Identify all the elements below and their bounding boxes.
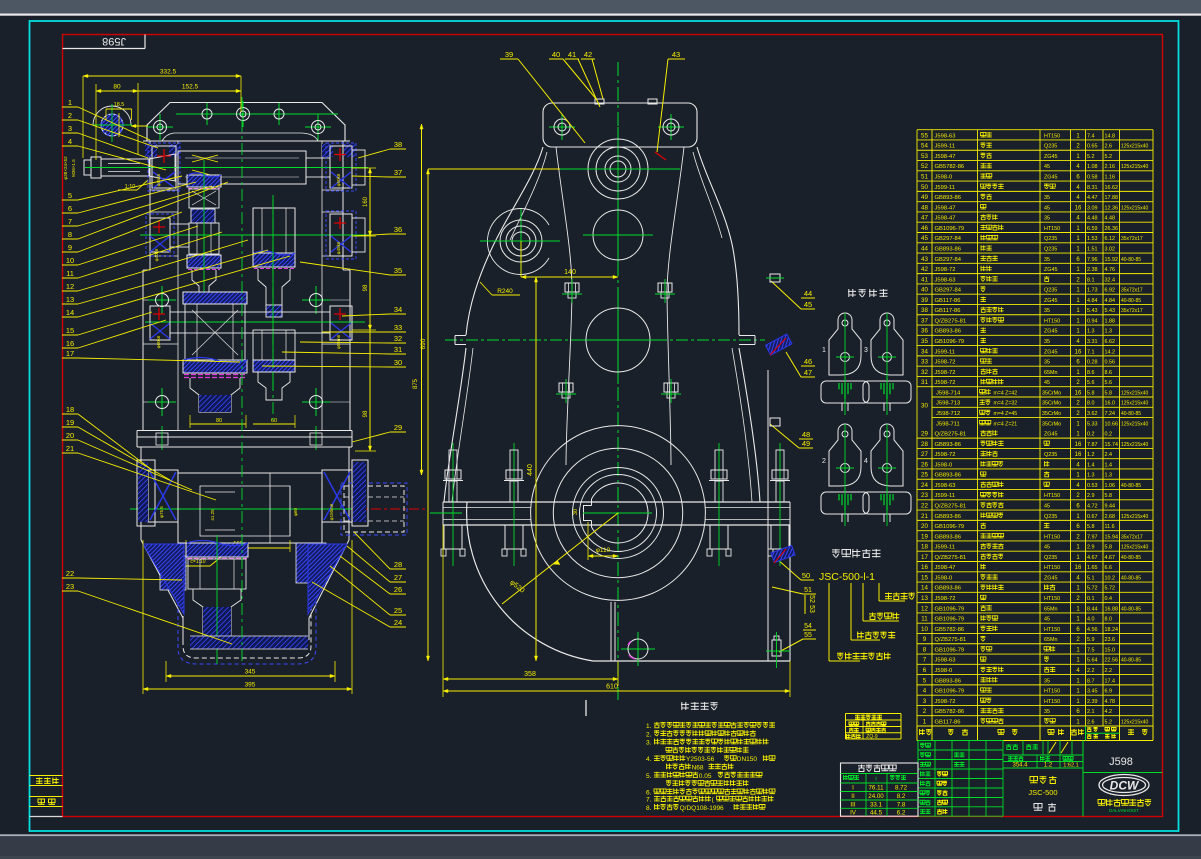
- svg-text:47: 47: [921, 215, 928, 222]
- svg-text:14.2: 14.2: [1105, 349, 1116, 355]
- svg-text:HT150: HT150: [1044, 596, 1060, 602]
- svg-text:J598-0: J598-0: [935, 462, 953, 468]
- svg-text:DN150: DN150: [737, 756, 758, 763]
- svg-text:φ50k6: φ50k6: [336, 173, 341, 186]
- svg-text:HT150: HT150: [1044, 627, 1060, 633]
- svg-text:15.74: 15.74: [1105, 442, 1119, 448]
- svg-text:16: 16: [1075, 349, 1082, 355]
- svg-text:ZG45: ZG45: [1044, 298, 1057, 304]
- svg-text:GB1096-79: GB1096-79: [935, 617, 965, 623]
- svg-text:J599-11: J599-11: [935, 349, 956, 355]
- svg-text:5.2: 5.2: [1087, 154, 1095, 160]
- svg-text:125x215x40: 125x215x40: [1121, 514, 1148, 520]
- svg-text:IV: IV: [850, 810, 857, 817]
- svg-text:25: 25: [394, 606, 402, 615]
- svg-text:J598-63: J598-63: [935, 277, 956, 283]
- svg-text:395: 395: [245, 682, 256, 689]
- svg-text:35x72x17: 35x72x17: [1121, 308, 1143, 314]
- svg-text:m=4 Z=32: m=4 Z=32: [994, 401, 1018, 407]
- svg-text:7.1: 7.1: [1087, 349, 1095, 355]
- svg-text:4: 4: [923, 688, 927, 695]
- svg-text:8.72: 8.72: [895, 785, 908, 792]
- svg-text:30: 30: [573, 509, 579, 515]
- svg-text:42: 42: [584, 50, 592, 59]
- svg-text:J598: J598: [1109, 756, 1133, 768]
- svg-text:4.47: 4.47: [1087, 195, 1098, 201]
- svg-text:J598-63: J598-63: [935, 658, 956, 664]
- svg-text:48: 48: [921, 204, 928, 211]
- svg-text:152.5: 152.5: [182, 84, 199, 91]
- svg-text:c=1:10: c=1:10: [190, 559, 205, 565]
- svg-text:8.0: 8.0: [1105, 617, 1113, 623]
- svg-text:4.2: 4.2: [1105, 709, 1113, 715]
- svg-text:2: 2: [68, 111, 72, 120]
- svg-text:40-80-85: 40-80-85: [1121, 555, 1141, 561]
- svg-text:4.56: 4.56: [1087, 627, 1098, 633]
- svg-text:15: 15: [66, 326, 74, 335]
- svg-text:60: 60: [271, 418, 277, 424]
- svg-text:26: 26: [394, 585, 402, 594]
- svg-text:23: 23: [66, 582, 74, 591]
- svg-text:19: 19: [66, 418, 74, 427]
- svg-text:5.43: 5.43: [1105, 308, 1116, 314]
- svg-text:4.48: 4.48: [1105, 216, 1116, 222]
- svg-text:0.67: 0.67: [1087, 514, 1098, 520]
- svg-text:φ45k6: φ45k6: [336, 241, 341, 254]
- svg-text:53: 53: [808, 605, 815, 613]
- svg-text:35: 35: [1044, 216, 1050, 222]
- svg-text:2.6: 2.6: [1087, 719, 1095, 725]
- svg-text:52: 52: [921, 163, 928, 170]
- svg-text:5: 5: [68, 191, 72, 200]
- svg-text:5.1: 5.1: [1087, 575, 1095, 581]
- svg-text:29: 29: [921, 431, 928, 438]
- svg-text:42: 42: [921, 266, 928, 273]
- svg-text:35CrMo: 35CrMo: [1042, 401, 1061, 407]
- svg-text:4.67: 4.67: [1087, 555, 1098, 561]
- svg-text:4: 4: [68, 137, 72, 146]
- svg-text:46: 46: [921, 225, 928, 232]
- svg-text:40-80-85: 40-80-85: [1121, 298, 1141, 304]
- svg-text:47: 47: [804, 368, 812, 377]
- svg-text:M36×1.5: M36×1.5: [71, 159, 76, 177]
- svg-text:Q235: Q235: [1044, 514, 1057, 520]
- svg-text:2: 2: [822, 458, 826, 465]
- svg-text:13: 13: [66, 295, 74, 304]
- svg-text:4.: 4.: [646, 756, 652, 763]
- svg-text:24: 24: [394, 618, 402, 627]
- svg-text:6.6: 6.6: [1105, 565, 1113, 571]
- svg-text:ZG45: ZG45: [1044, 432, 1057, 438]
- svg-text:31: 31: [921, 379, 928, 386]
- svg-text:GB893-86: GB893-86: [935, 586, 961, 592]
- svg-text:43: 43: [921, 256, 928, 263]
- svg-text:44: 44: [921, 245, 928, 252]
- svg-text:J598-713: J598-713: [936, 401, 960, 407]
- svg-text:J598-72: J598-72: [935, 380, 956, 386]
- svg-text:17.4: 17.4: [1105, 678, 1116, 684]
- svg-text:5.8: 5.8: [1105, 545, 1113, 551]
- svg-text:2.2: 2.2: [1105, 668, 1113, 674]
- svg-text:0.05: 0.05: [699, 773, 712, 780]
- svg-text:HT150: HT150: [1044, 133, 1060, 139]
- svg-text:40-80-85: 40-80-85: [1121, 411, 1141, 417]
- svg-text:5.8: 5.8: [1087, 390, 1095, 396]
- svg-text:24: 24: [921, 482, 928, 489]
- svg-text:7.96: 7.96: [1087, 257, 1098, 263]
- svg-text:55: 55: [804, 632, 812, 639]
- svg-text:7.87: 7.87: [1087, 442, 1098, 448]
- svg-text:Q235: Q235: [1044, 246, 1057, 252]
- svg-text:5: 5: [923, 677, 927, 684]
- svg-text:35CrMo: 35CrMo: [1042, 421, 1061, 427]
- svg-text:48: 48: [802, 430, 810, 439]
- svg-text:35: 35: [921, 338, 928, 345]
- svg-text:39: 39: [505, 50, 513, 59]
- svg-text:0.56: 0.56: [1105, 360, 1116, 366]
- svg-text:GB5782-86: GB5782-86: [935, 627, 965, 633]
- svg-text:358: 358: [524, 671, 536, 678]
- svg-text:4.48: 4.48: [1087, 216, 1098, 222]
- svg-text:21: 21: [66, 444, 74, 453]
- svg-text:49: 49: [802, 439, 810, 448]
- svg-text:35CrMo: 35CrMo: [1042, 411, 1061, 417]
- svg-text:Q235: Q235: [1044, 555, 1057, 561]
- svg-text:76.11: 76.11: [868, 785, 884, 792]
- svg-text:φ55k6: φ55k6: [156, 173, 161, 186]
- svg-text:38: 38: [921, 307, 928, 314]
- svg-text:44: 44: [804, 289, 812, 298]
- svg-text:5.64: 5.64: [1087, 658, 1098, 664]
- svg-text:Q235: Q235: [1044, 236, 1057, 242]
- svg-text:GB1096-79: GB1096-79: [935, 226, 965, 232]
- svg-text:N68: N68: [692, 765, 704, 772]
- svg-text:0.58: 0.58: [1087, 175, 1098, 181]
- svg-text:52: 52: [808, 595, 815, 603]
- svg-text:1.3: 1.3: [1087, 329, 1095, 335]
- svg-text:5.6: 5.6: [1105, 380, 1113, 386]
- svg-text:35: 35: [1044, 308, 1050, 314]
- svg-text:33: 33: [921, 359, 928, 366]
- svg-text:J599-11: J599-11: [935, 493, 956, 499]
- svg-text:65Mn: 65Mn: [1044, 370, 1058, 376]
- svg-text:35: 35: [1044, 257, 1050, 263]
- svg-text:GB297-84: GB297-84: [935, 257, 962, 263]
- svg-text:ZG45: ZG45: [1044, 329, 1057, 335]
- svg-text:332.5: 332.5: [160, 69, 177, 76]
- svg-text:Q/ZB275-81: Q/ZB275-81: [935, 503, 967, 509]
- svg-text:ZG45: ZG45: [1044, 575, 1057, 581]
- svg-text:15.0: 15.0: [1105, 647, 1116, 653]
- svg-text:36: 36: [394, 225, 402, 234]
- svg-text:24.00: 24.00: [868, 793, 884, 800]
- svg-text:18: 18: [66, 405, 74, 414]
- svg-text:2.4: 2.4: [1105, 452, 1113, 458]
- svg-text:5.33: 5.33: [1087, 421, 1098, 427]
- svg-text:2.16: 2.16: [1105, 164, 1116, 170]
- svg-text:16: 16: [1075, 442, 1082, 448]
- svg-text:GB893-86: GB893-86: [935, 329, 961, 335]
- svg-text:J598-47: J598-47: [935, 154, 956, 160]
- svg-text:1.3: 1.3: [1087, 473, 1095, 479]
- svg-text:7: 7: [68, 217, 72, 226]
- svg-text:1.2: 1.2: [1087, 452, 1095, 458]
- svg-text:45: 45: [921, 235, 928, 242]
- svg-text:35x72x17: 35x72x17: [1121, 236, 1143, 242]
- svg-text:ZG45: ZG45: [1044, 267, 1057, 273]
- svg-text:3.: 3.: [646, 740, 652, 747]
- svg-text:4.67: 4.67: [1105, 555, 1116, 561]
- svg-text:46: 46: [804, 357, 812, 366]
- svg-text:49: 49: [921, 194, 928, 201]
- svg-text:7.4: 7.4: [1087, 133, 1095, 139]
- svg-text:80: 80: [113, 84, 121, 91]
- svg-text:J598-72: J598-72: [935, 370, 956, 376]
- svg-text:41.25: 41.25: [210, 509, 215, 521]
- svg-text:8.31: 8.31: [1087, 185, 1098, 191]
- svg-text:98: 98: [363, 284, 369, 291]
- svg-text:i: i: [875, 777, 876, 783]
- svg-text:5.72: 5.72: [1105, 586, 1116, 592]
- svg-text:5.2: 5.2: [1105, 154, 1113, 160]
- svg-text:17: 17: [921, 554, 928, 561]
- svg-text:1.3: 1.3: [1105, 329, 1113, 335]
- svg-text:35: 35: [1044, 195, 1050, 201]
- svg-text:J599-11: J599-11: [935, 185, 956, 191]
- svg-text:ZQ-9: ZQ-9: [866, 734, 878, 740]
- svg-text:5.8: 5.8: [1087, 524, 1095, 530]
- svg-text:21: 21: [921, 513, 928, 520]
- svg-text:GB297-84: GB297-84: [935, 236, 962, 242]
- svg-text:45: 45: [1044, 380, 1050, 386]
- svg-text:m=4 Z=42: m=4 Z=42: [994, 390, 1018, 396]
- svg-text:4.0: 4.0: [1087, 617, 1095, 623]
- svg-text:125x215x40: 125x215x40: [1121, 442, 1148, 448]
- svg-text:II: II: [851, 793, 855, 800]
- svg-text:12: 12: [921, 605, 928, 612]
- svg-text:DALIANHOIST: DALIANHOIST: [1109, 808, 1139, 813]
- svg-text:J598-47: J598-47: [935, 565, 956, 571]
- svg-text:35x72x17: 35x72x17: [1121, 288, 1143, 294]
- svg-text:65Mn: 65Mn: [1044, 637, 1058, 643]
- svg-text:14: 14: [66, 308, 74, 317]
- svg-text:JSC-500-l-1: JSC-500-l-1: [819, 571, 875, 583]
- svg-text:16: 16: [1075, 452, 1082, 458]
- svg-text:GB117-86: GB117-86: [935, 298, 961, 304]
- svg-text:54: 54: [921, 143, 928, 150]
- svg-text:39: 39: [921, 297, 928, 304]
- svg-text:8.7: 8.7: [1087, 678, 1095, 684]
- svg-text:125x215x40: 125x215x40: [1121, 545, 1148, 551]
- svg-text:15.92: 15.92: [1105, 257, 1119, 263]
- svg-text:Q/ZB275-81: Q/ZB275-81: [935, 432, 967, 438]
- svg-text:354.4: 354.4: [1012, 763, 1028, 769]
- svg-text:8.0: 8.0: [1087, 401, 1095, 407]
- svg-text:J598-63: J598-63: [935, 483, 956, 489]
- svg-text:1.16: 1.16: [1105, 175, 1116, 181]
- svg-text:9: 9: [68, 243, 72, 252]
- svg-text:J598-714: J598-714: [936, 390, 961, 396]
- svg-text:J599-11: J599-11: [935, 144, 956, 150]
- svg-text:17: 17: [66, 349, 74, 358]
- svg-text:40: 40: [921, 287, 928, 294]
- svg-text:J598-72: J598-72: [935, 267, 956, 273]
- svg-text:3.31: 3.31: [1087, 339, 1098, 345]
- svg-text:18: 18: [921, 544, 928, 551]
- svg-text:35CrMo: 35CrMo: [1042, 390, 1061, 396]
- svg-text:1.06: 1.06: [1105, 483, 1116, 489]
- svg-text:28: 28: [921, 441, 928, 448]
- svg-text:19: 19: [921, 533, 928, 540]
- svg-text:13: 13: [921, 595, 928, 602]
- svg-text:Q235: Q235: [1044, 452, 1057, 458]
- svg-text:45: 45: [1044, 545, 1050, 551]
- svg-text:43: 43: [672, 50, 680, 59]
- svg-text:17.88: 17.88: [1105, 195, 1119, 201]
- svg-text:4.84: 4.84: [1105, 298, 1116, 304]
- svg-text:33.1: 33.1: [870, 801, 883, 808]
- svg-text:Q/ZB275-81: Q/ZB275-81: [935, 318, 967, 324]
- svg-text:15.94: 15.94: [1105, 534, 1119, 540]
- svg-text:2.6: 2.6: [1105, 144, 1113, 150]
- svg-text:16: 16: [66, 339, 74, 348]
- svg-text:R240: R240: [497, 288, 513, 295]
- svg-text:φ150m6: φ150m6: [329, 503, 334, 520]
- svg-text:HT150: HT150: [1044, 318, 1060, 324]
- svg-text:0.65: 0.65: [1087, 144, 1098, 150]
- svg-text:GB1096-79: GB1096-79: [935, 606, 965, 612]
- svg-text:35: 35: [1044, 709, 1050, 715]
- svg-text:14.8: 14.8: [1105, 133, 1116, 139]
- svg-text:φ38×24×52: φ38×24×52: [63, 156, 68, 180]
- svg-text:J598: J598: [102, 35, 126, 47]
- svg-text:27: 27: [394, 573, 402, 582]
- svg-text:2.68: 2.68: [1105, 514, 1116, 520]
- svg-text:45: 45: [1044, 205, 1050, 211]
- svg-text:8: 8: [68, 230, 72, 239]
- svg-text:16: 16: [1075, 205, 1082, 211]
- svg-text:m=4 Z=21: m=4 Z=21: [994, 421, 1018, 427]
- svg-text:8.1: 8.1: [1087, 277, 1095, 283]
- svg-text:30: 30: [921, 402, 928, 409]
- svg-text:7.24: 7.24: [1105, 411, 1116, 417]
- svg-text:440: 440: [527, 464, 534, 476]
- svg-text:Q235: Q235: [1044, 144, 1057, 150]
- svg-text:III: III: [850, 801, 855, 808]
- svg-text:GB1096-79: GB1096-79: [935, 339, 965, 345]
- svg-text:0.94: 0.94: [1087, 318, 1098, 324]
- svg-text:J598-0: J598-0: [935, 175, 953, 181]
- svg-text:15: 15: [921, 574, 928, 581]
- svg-text:44.5: 44.5: [870, 810, 883, 817]
- svg-text:1.3: 1.3: [1105, 473, 1113, 479]
- svg-text:7.8: 7.8: [897, 801, 906, 808]
- svg-text:1:2: 1:2: [1044, 763, 1053, 769]
- svg-text:50: 50: [921, 184, 928, 191]
- svg-text:140: 140: [564, 269, 576, 276]
- svg-text:27: 27: [921, 451, 928, 458]
- svg-text:16.62: 16.62: [1105, 185, 1119, 191]
- svg-text:34: 34: [394, 305, 402, 314]
- svg-text:8.44: 8.44: [1087, 606, 1098, 612]
- svg-text:0.2: 0.2: [1105, 432, 1113, 438]
- svg-text:35: 35: [394, 266, 402, 275]
- svg-text:J598-63: J598-63: [935, 133, 956, 139]
- svg-text:98: 98: [363, 410, 369, 417]
- svg-text:20: 20: [66, 431, 74, 440]
- svg-text:3: 3: [864, 347, 868, 354]
- svg-text:φ110: φ110: [596, 547, 611, 554]
- svg-text:5.2: 5.2: [1105, 719, 1113, 725]
- svg-text:2.9: 2.9: [1087, 493, 1095, 499]
- svg-text:2.2: 2.2: [1087, 668, 1095, 674]
- svg-text:3: 3: [923, 698, 927, 705]
- svg-text:40: 40: [552, 50, 560, 59]
- svg-text:51: 51: [804, 587, 812, 594]
- svg-text:1.53: 1.53: [1087, 236, 1098, 242]
- svg-text:GB1096-79: GB1096-79: [935, 689, 965, 695]
- svg-text:1: 1: [68, 98, 72, 107]
- svg-text:125x215x40: 125x215x40: [1121, 421, 1148, 427]
- svg-text:34: 34: [921, 348, 928, 355]
- svg-text:GB893-86: GB893-86: [935, 195, 961, 201]
- svg-text:875: 875: [413, 378, 419, 389]
- svg-text:Q235: Q235: [1044, 288, 1057, 294]
- svg-text:m=4 Z=45: m=4 Z=45: [994, 411, 1018, 417]
- svg-text:4.78: 4.78: [1105, 699, 1116, 705]
- svg-text:125x215x40: 125x215x40: [1121, 401, 1148, 407]
- svg-text:Y2503-56: Y2503-56: [686, 756, 715, 763]
- svg-text:6: 6: [923, 667, 927, 674]
- svg-text:8: 8: [923, 646, 927, 653]
- svg-text:0.28: 0.28: [1087, 360, 1098, 366]
- svg-text:40-80-85: 40-80-85: [1121, 606, 1141, 612]
- svg-text:1.: 1.: [646, 723, 652, 730]
- svg-text:φ55m6: φ55m6: [336, 334, 341, 349]
- svg-text:4.72: 4.72: [1087, 503, 1098, 509]
- svg-text:GB117-86: GB117-86: [935, 308, 961, 314]
- svg-text:7.5: 7.5: [1087, 647, 1095, 653]
- svg-text:26.36: 26.36: [1105, 226, 1119, 232]
- svg-text:ZG45: ZG45: [1044, 154, 1057, 160]
- svg-text:5.8: 5.8: [1105, 390, 1113, 396]
- svg-text:32: 32: [921, 369, 928, 376]
- svg-text:610: 610: [606, 684, 618, 691]
- svg-text:6.62: 6.62: [1105, 339, 1116, 345]
- svg-text:16: 16: [1075, 390, 1082, 396]
- svg-text:10: 10: [921, 626, 928, 633]
- svg-text:1.08: 1.08: [1087, 164, 1098, 170]
- svg-text:26: 26: [921, 461, 928, 468]
- svg-text:125x215x40: 125x215x40: [1121, 719, 1148, 725]
- svg-text:1.4: 1.4: [1105, 462, 1113, 468]
- svg-text:16: 16: [921, 564, 928, 571]
- svg-text:10: 10: [66, 256, 74, 265]
- svg-text:11: 11: [921, 616, 928, 623]
- svg-text:1.88: 1.88: [1105, 318, 1116, 324]
- svg-text:25: 25: [921, 472, 928, 479]
- svg-text:16: 16: [1075, 565, 1082, 571]
- svg-text:3.09: 3.09: [1087, 205, 1098, 211]
- svg-text:23.6: 23.6: [1105, 637, 1116, 643]
- svg-text:3: 3: [68, 124, 72, 133]
- svg-text:8.: 8.: [646, 805, 652, 812]
- svg-text:125x215x40: 125x215x40: [1121, 144, 1148, 150]
- svg-text:18.24: 18.24: [1105, 627, 1119, 633]
- svg-text:GB893-86: GB893-86: [935, 442, 961, 448]
- svg-text:45: 45: [1044, 503, 1050, 509]
- svg-text:J598-47: J598-47: [935, 216, 956, 222]
